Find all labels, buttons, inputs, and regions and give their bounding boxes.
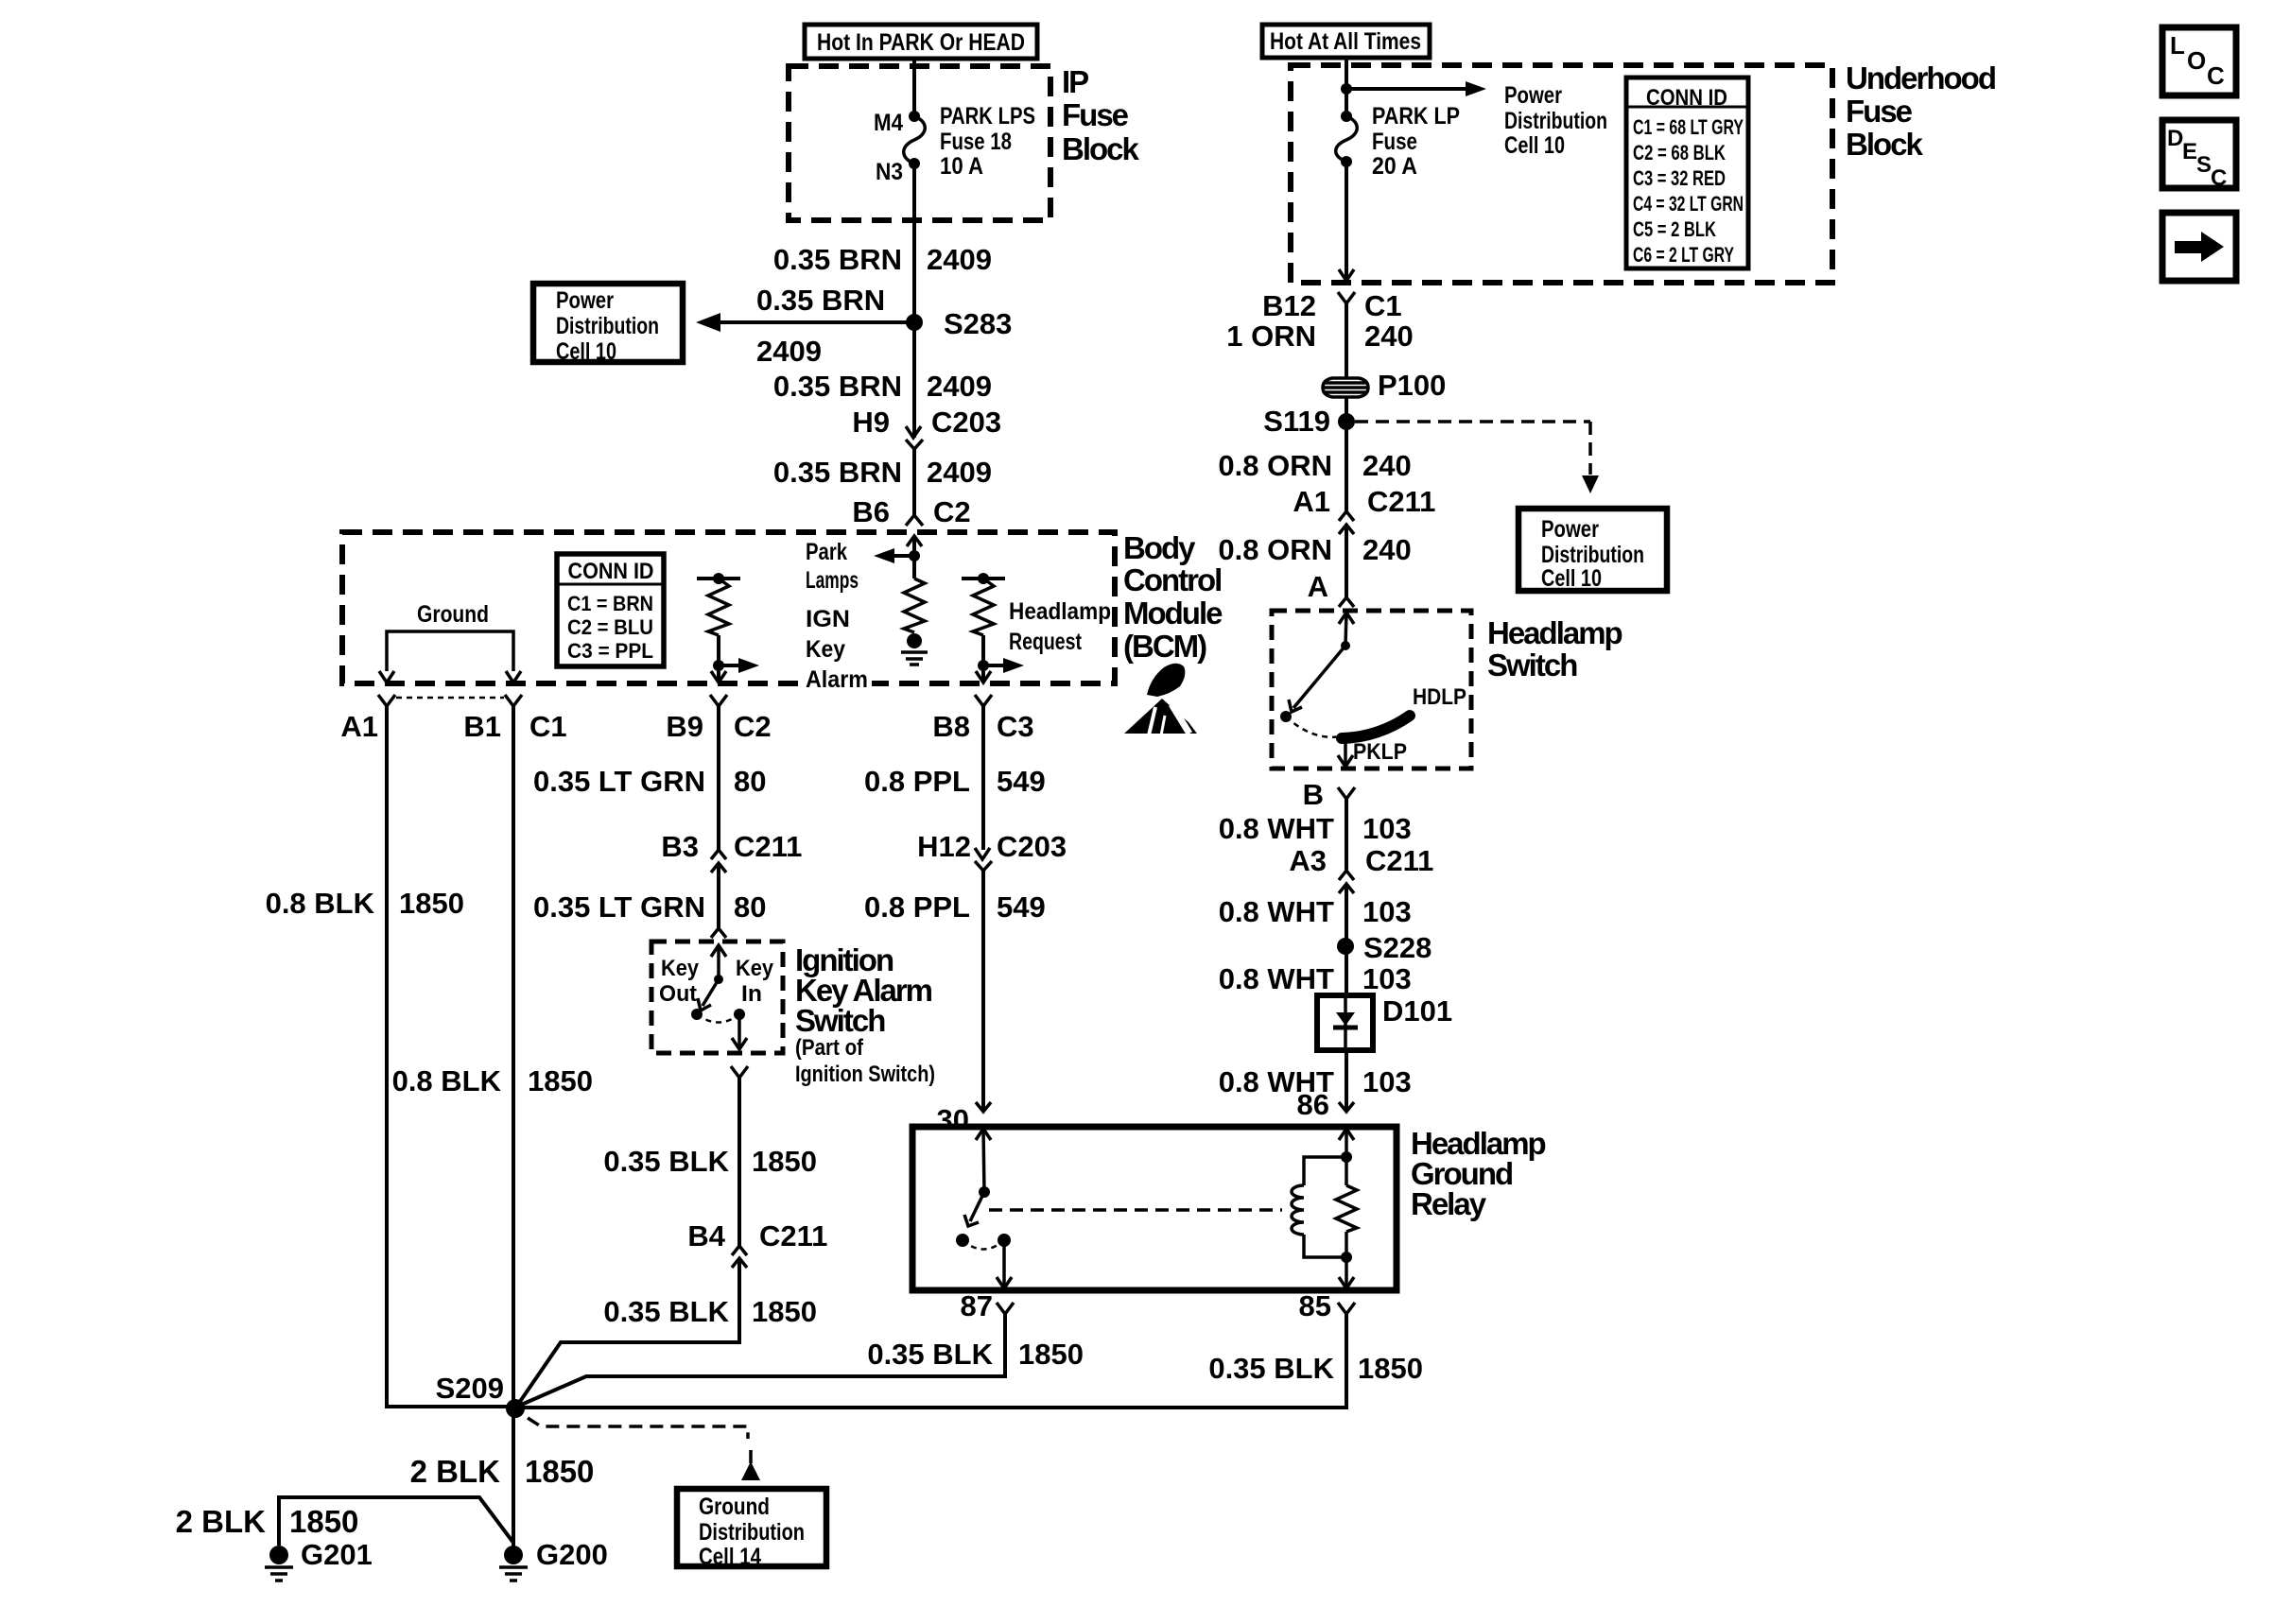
wire from fuse to underhood block edge (1345, 162, 1348, 281)
down arrow at BCM edge (pin B8) (976, 671, 991, 682)
wire from relay 85 down and over to S209 (523, 1314, 1346, 1408)
BCM pin B1 connector chevron (505, 695, 522, 706)
svg-text:S283: S283 (944, 307, 1012, 340)
chevron below ignition switch box (731, 1066, 748, 1078)
Headlamp Ground Relay box (912, 1127, 1397, 1290)
wire label 0.8 ORN 240 (1218, 449, 1411, 482)
wire from C211 down to ignition key alarm switch (717, 863, 720, 928)
wire label 0.35 BLK 1850 (87 lead) (867, 1338, 1084, 1371)
svg-text:Request: Request (1009, 629, 1083, 655)
connector C2 pin B6 at BCM edge (852, 495, 970, 546)
wire label 0.35 LT GRN 80 (533, 765, 767, 798)
wire from P100 to S119 (1345, 398, 1348, 511)
svg-text:Fuse: Fuse (1372, 129, 1417, 155)
svg-text:CONN ID: CONN ID (568, 559, 654, 584)
wire label 2 BLK 1850 (G201 lead) (176, 1504, 359, 1539)
svg-text:2409: 2409 (927, 370, 992, 403)
svg-text:1 ORN: 1 ORN (1226, 320, 1316, 353)
wire from C203 down to BCM pin B6 (912, 449, 916, 515)
feed label box "Hot At All Times" (1262, 25, 1430, 58)
ignition switch internals (691, 945, 747, 1049)
in-line connector C203 pin H12 (917, 830, 1067, 871)
svg-text:0.35 BLK: 0.35 BLK (603, 1295, 729, 1328)
svg-text:O: O (2187, 46, 2206, 75)
svg-text:Distribution: Distribution (699, 1519, 805, 1546)
BCM pin A1 connector chevron (378, 695, 395, 706)
svg-text:Key: Key (661, 956, 700, 981)
feed label box "Hot In PARK Or HEAD" (805, 25, 1037, 59)
svg-text:Cell 10: Cell 10 (556, 338, 616, 365)
IP Fuse Block dashed box (789, 66, 1050, 220)
svg-text:C211: C211 (759, 1219, 827, 1253)
svg-text:C2 = 68 BLK: C2 = 68 BLK (1633, 141, 1726, 164)
svg-text:G200: G200 (536, 1538, 608, 1571)
svg-text:B9: B9 (666, 710, 703, 743)
svg-text:549: 549 (997, 890, 1046, 924)
IGN key alarm arrow (points right) (719, 658, 759, 673)
Park Lamps label (806, 539, 859, 594)
svg-text:C203: C203 (931, 406, 1001, 439)
chevron above ignition switch box (711, 928, 726, 938)
fuse value label PARK LPS Fuse 18 10 A (940, 103, 1035, 180)
chevron below headlamp switch box (1338, 787, 1355, 799)
wire label 2 BLK 1850 (below S209) (410, 1454, 595, 1489)
Body Control Module (BCM) dashed box (342, 532, 1115, 683)
wire label 0.35 BLK 1850 (603, 1145, 817, 1178)
wire label 0.8 ORN 240 (lower) (1218, 533, 1411, 566)
in-line connector C211 pin A1 (1293, 485, 1435, 534)
svg-text:Cell 14: Cell 14 (699, 1544, 761, 1570)
svg-text:C211: C211 (734, 830, 802, 863)
Headlamp Switch dashed box (1272, 611, 1471, 769)
svg-text:C1: C1 (1364, 289, 1402, 322)
wire from S283 down to connector C203 (912, 322, 916, 438)
svg-text:Distribution: Distribution (1541, 542, 1644, 568)
svg-text:Ground: Ground (417, 601, 489, 628)
svg-text:1850: 1850 (289, 1504, 358, 1539)
in-line connector C211 pin A3 (1289, 844, 1433, 893)
svg-text:C: C (2207, 61, 2225, 90)
svg-text:Fuse: Fuse (1846, 94, 1913, 129)
relay coil and resistor (pins 86/85) (1292, 1129, 1357, 1288)
svg-text:G201: G201 (301, 1538, 373, 1571)
Power Distribution Cell 10 reference box (left) (533, 284, 683, 365)
wire from C211 to headlamp switch (1345, 525, 1348, 597)
svg-text:0.8 BLK: 0.8 BLK (266, 887, 375, 920)
svg-text:1850: 1850 (528, 1064, 593, 1097)
svg-text:Park: Park (806, 539, 847, 565)
wire B8 headlamp request lead down to connector C203 (981, 706, 985, 850)
chevron below relay at pin 87 (997, 1303, 1014, 1314)
svg-text:B8: B8 (932, 710, 970, 743)
wire B9 key alarm lead down to connector C211 (717, 706, 720, 850)
svg-text:C203: C203 (997, 830, 1067, 863)
svg-text:(Part of: (Part of (795, 1035, 864, 1061)
svg-text:85: 85 (1299, 1289, 1331, 1322)
wire label 0.8 WHT 103 (fourth) (1219, 1065, 1412, 1098)
svg-text:Power: Power (1541, 516, 1599, 543)
BCM park lamps driver: node and resistor to ground (909, 536, 920, 579)
svg-text:C2: C2 (933, 495, 971, 528)
svg-text:Lamps: Lamps (806, 567, 859, 594)
headlamp switch name label (1487, 615, 1622, 682)
splice S283 (906, 314, 923, 331)
svg-text:A3: A3 (1289, 844, 1327, 877)
svg-text:H12: H12 (917, 830, 971, 863)
svg-text:Hot In PARK Or HEAD: Hot In PARK Or HEAD (817, 29, 1025, 56)
ESD sensitivity symbol (1124, 664, 1197, 735)
svg-text:P100: P100 (1378, 369, 1446, 402)
svg-text:Module: Module (1123, 596, 1223, 631)
BCM pin B8 connector chevron (975, 695, 992, 706)
svg-text:C1 = BRN: C1 = BRN (567, 592, 653, 615)
svg-text:0.8 BLK: 0.8 BLK (392, 1064, 502, 1097)
svg-text:1850: 1850 (399, 887, 464, 920)
svg-text:C2: C2 (734, 710, 772, 743)
svg-text:0.8 PPL: 0.8 PPL (864, 890, 970, 924)
svg-text:PKLP: PKLP (1353, 739, 1407, 765)
splice S119 (1338, 413, 1355, 430)
ground G201 (265, 1538, 373, 1581)
svg-text:86: 86 (1297, 1088, 1329, 1121)
svg-text:2409: 2409 (927, 243, 992, 276)
svg-text:C3 = 32 RED: C3 = 32 RED (1633, 166, 1726, 190)
svg-text:CONN ID: CONN ID (1646, 85, 1727, 111)
svg-text:Cell 10: Cell 10 (1541, 565, 1602, 592)
svg-text:HDLP: HDLP (1413, 684, 1466, 710)
wire from D101 to relay pin 86 (1345, 1050, 1348, 1112)
ground G200 (499, 1538, 608, 1581)
wire label 0.35 BLK 1850 (lower) (603, 1295, 817, 1328)
svg-text:Fuse 18: Fuse 18 (940, 129, 1012, 155)
connector C1 pin B12 below underhood block (1262, 289, 1402, 322)
svg-text:1850: 1850 (752, 1145, 817, 1178)
svg-text:1850: 1850 (1358, 1352, 1423, 1385)
svg-text:Ground: Ground (699, 1494, 770, 1520)
svg-text:20 A: 20 A (1372, 153, 1417, 180)
svg-text:Key: Key (806, 636, 845, 663)
connector body dashed link A1-B1 (396, 697, 504, 700)
svg-text:Hot At All Times: Hot At All Times (1270, 28, 1421, 55)
svg-text:D101: D101 (1382, 994, 1452, 1028)
svg-text:0.35 BLK: 0.35 BLK (867, 1338, 993, 1371)
svg-text:C211: C211 (1367, 485, 1435, 518)
svg-text:C1 = 68 LT GRY: C1 = 68 LT GRY (1633, 115, 1744, 139)
wire label 0.35 BLK 1850 (85 lead) (1208, 1352, 1423, 1385)
svg-text:S209: S209 (436, 1372, 504, 1405)
wire label 1 ORN 240 (1226, 320, 1413, 353)
wire label 0.35 BRN 2409 (below C203) (773, 456, 992, 489)
relay internal dashed actuation line (989, 1208, 1282, 1212)
grommet P100 (1323, 369, 1446, 402)
svg-text:C1: C1 (529, 710, 567, 743)
svg-text:Switch: Switch (1487, 648, 1577, 682)
down arrow at BCM edge (pin B9) (711, 671, 726, 682)
LOC icon box (2162, 27, 2236, 95)
chevron above relay box at pin 86 (1339, 1102, 1354, 1112)
in-line connector C211 pin B4 (687, 1219, 827, 1268)
svg-text:S119: S119 (1263, 405, 1330, 438)
svg-text:0.8 WHT: 0.8 WHT (1219, 962, 1334, 995)
svg-text:2 BLK: 2 BLK (176, 1504, 267, 1539)
svg-text:30: 30 (937, 1103, 969, 1136)
switch wiper track HDLP-PKLP (thick arc) (1342, 716, 1410, 738)
wire from B4 down and over to S209 (517, 1258, 739, 1406)
svg-text:Headlamp: Headlamp (1009, 598, 1111, 625)
svg-text:0.35 LT GRN: 0.35 LT GRN (533, 890, 705, 924)
wire from C211 through S228 and D101 to relay 86 (1345, 884, 1348, 995)
wire label 0.8 PPL 549 (lower) (864, 890, 1046, 924)
svg-text:0.35 BRN: 0.35 BRN (756, 284, 885, 317)
svg-text:PARK LPS: PARK LPS (940, 103, 1035, 130)
svg-text:Power: Power (1504, 82, 1562, 109)
in-line connector C203 pin H9 (852, 406, 1001, 449)
relay name label (1411, 1126, 1546, 1221)
svg-text:In: In (741, 981, 762, 1007)
wire from B12 to P100 (1345, 303, 1348, 377)
svg-text:Out: Out (659, 981, 697, 1007)
svg-text:240: 240 (1362, 533, 1412, 566)
DESC icon box (2162, 120, 2236, 191)
svg-text:IGN: IGN (806, 606, 850, 632)
wire from G201 up and over to G200 lead (279, 1497, 513, 1546)
arrow branch to power distribution (points right) (1346, 81, 1486, 96)
svg-text:C5 = 2 BLK: C5 = 2 BLK (1633, 217, 1716, 241)
in-line connector C211 pin B3 (661, 830, 802, 872)
svg-text:0.8 WHT: 0.8 WHT (1219, 812, 1334, 845)
wire from relay 87 down and over to S209 (519, 1314, 1005, 1406)
svg-text:2409: 2409 (756, 335, 822, 368)
branch node in underhood block (1341, 83, 1352, 95)
wire label 0.35 BRN 2409 (below S283) (773, 370, 992, 403)
svg-text:103: 103 (1362, 962, 1412, 995)
relay switch (pins 30/87) (956, 1129, 1012, 1288)
svg-text:0.8 ORN: 0.8 ORN (1218, 533, 1332, 566)
wire A1 ground lead down to S209 (387, 706, 509, 1407)
svg-text:0.35 BLK: 0.35 BLK (1208, 1352, 1334, 1385)
svg-text:1850: 1850 (752, 1295, 817, 1328)
CONN ID table (underhood) (1626, 78, 1748, 268)
svg-text:240: 240 (1362, 449, 1412, 482)
svg-text:0.8 WHT: 0.8 WHT (1219, 895, 1334, 928)
svg-text:Power: Power (556, 287, 614, 314)
BCM IGN key alarm resistor (697, 573, 740, 682)
BCM pin B9 connector chevron (710, 695, 727, 706)
diode D101 (1317, 994, 1452, 1050)
Underhood Fuse Block name label (1846, 60, 1995, 162)
svg-text:Control: Control (1123, 562, 1221, 597)
Underhood Fuse Block dashed box (1291, 65, 1832, 283)
svg-text:1850: 1850 (1018, 1338, 1084, 1371)
fuse value label PARK LP Fuse 20 A (1372, 103, 1460, 180)
svg-text:B3: B3 (661, 830, 699, 863)
svg-text:0.8 ORN: 0.8 ORN (1218, 449, 1332, 482)
svg-text:B4: B4 (687, 1219, 725, 1253)
Power Distribution Cell 10 reference box (right) (1518, 509, 1667, 592)
svg-text:Headlamp: Headlamp (1487, 615, 1622, 650)
BCM internal ground bracket wires (379, 631, 521, 682)
IGN Key Alarm label (802, 606, 872, 693)
svg-text:Switch: Switch (795, 1003, 885, 1038)
wire label 0.8 PPL 549 (864, 765, 1046, 798)
svg-text:Fuse: Fuse (1062, 97, 1129, 132)
fuse F18 PARK LPS symbol (904, 111, 926, 169)
wire label 0.8 WHT 103 (1219, 812, 1412, 845)
svg-text:S228: S228 (1363, 931, 1431, 964)
BCM headlamp request resistor (962, 573, 1005, 682)
svg-text:Relay: Relay (1411, 1186, 1487, 1221)
park lamps resistor (904, 579, 925, 632)
svg-text:10 A: 10 A (940, 153, 983, 180)
svg-text:B1: B1 (463, 710, 501, 743)
svg-text:C3 = PPL: C3 = PPL (567, 639, 653, 663)
svg-text:87: 87 (961, 1289, 993, 1322)
svg-text:B12: B12 (1262, 289, 1316, 322)
svg-text:0.35 BRN: 0.35 BRN (773, 243, 902, 276)
chevron above relay box at pin 30 (976, 1102, 991, 1112)
forward arrow icon box (2162, 213, 2236, 281)
Key Out label (659, 956, 700, 1007)
svg-text:240: 240 (1364, 320, 1414, 353)
svg-text:A1: A1 (340, 710, 378, 743)
svg-text:2 BLK: 2 BLK (410, 1454, 501, 1489)
chevron above headlamp switch box (1339, 597, 1354, 607)
svg-text:0.35 BLK: 0.35 BLK (603, 1145, 729, 1178)
svg-text:C3: C3 (997, 710, 1034, 743)
Ignition Key Alarm Switch dashed box (651, 942, 783, 1053)
svg-text:Key: Key (736, 956, 774, 981)
svg-text:Block: Block (1846, 127, 1924, 162)
svg-text:1850: 1850 (525, 1454, 594, 1489)
svg-text:C4 = 32 LT GRN: C4 = 32 LT GRN (1633, 192, 1744, 216)
svg-text:0.8 PPL: 0.8 PPL (864, 765, 970, 798)
BCM internal ground symbol (901, 633, 928, 665)
down arrow at underhood block edge (1339, 269, 1354, 281)
Ground Distribution Cell 14 reference box (677, 1489, 826, 1570)
headlamp switch internals (1280, 613, 1354, 737)
svg-text:IP: IP (1062, 64, 1088, 99)
svg-text:D: D (2167, 126, 2183, 151)
svg-text:Alarm: Alarm (806, 666, 868, 693)
wire label 0.35 BRN 2409 (773, 243, 992, 276)
Power Distribution Cell 10 text (underhood) (1504, 82, 1607, 159)
svg-text:Distribution: Distribution (1504, 108, 1607, 134)
svg-text:(BCM): (BCM) (1123, 629, 1206, 664)
park lamps arrow (points left) (874, 548, 914, 563)
svg-text:M4: M4 (874, 110, 903, 136)
svg-text:Underhood: Underhood (1846, 60, 1995, 95)
ignition switch name label (795, 942, 935, 1087)
wire branch from S283 to Power Distribution (arrow left) (696, 313, 914, 332)
wire from Hot At All Times box to fuse (1345, 58, 1348, 115)
svg-text:E: E (2182, 139, 2197, 164)
svg-text:103: 103 (1362, 1065, 1412, 1098)
wire from C203 down to relay pin 30 (981, 871, 985, 1112)
svg-text:103: 103 (1362, 895, 1412, 928)
svg-text:A1: A1 (1293, 485, 1330, 518)
svg-text:B6: B6 (852, 495, 890, 528)
svg-text:Body: Body (1123, 530, 1196, 565)
headlamp request arrow (points right) (983, 658, 1024, 673)
wire label 0.35 LT GRN 80 (lower) (533, 890, 767, 924)
IP Fuse Block name label (1062, 64, 1140, 166)
wire key-in lead down to connector C211 pin B4 (737, 1078, 741, 1246)
Headlamp Request label (1009, 598, 1111, 655)
svg-text:0.35 LT GRN: 0.35 LT GRN (533, 765, 705, 798)
svg-text:Distribution: Distribution (556, 313, 659, 339)
svg-text:H9: H9 (852, 406, 890, 439)
dashed reference from S119 to power distribution (1355, 422, 1599, 493)
svg-text:C2 = BLU: C2 = BLU (567, 615, 653, 639)
svg-text:C6 = 2 LT GRY: C6 = 2 LT GRY (1633, 243, 1734, 267)
svg-text:N3: N3 (876, 159, 903, 185)
svg-text:PARK LP: PARK LP (1372, 103, 1460, 130)
wire label 0.8 BLK 1850 (B1 lead) (392, 1064, 593, 1097)
switch output lead to pin B (1338, 738, 1353, 767)
wire B1 ground lead down through S209 to G200 (512, 706, 515, 1546)
svg-text:S: S (2196, 152, 2212, 178)
BCM name label (1123, 530, 1223, 664)
Key In label (736, 956, 774, 1007)
svg-text:C: C (2211, 165, 2227, 191)
wire from fuse N3 down to splice S283 (912, 164, 916, 322)
wire from switch B down to connector C211 (1345, 799, 1348, 871)
svg-text:L: L (2170, 31, 2185, 60)
svg-text:80: 80 (734, 765, 766, 798)
svg-text:B: B (1303, 778, 1324, 811)
fuse PARK LP 20A symbol (1336, 111, 1358, 167)
svg-text:2409: 2409 (927, 456, 992, 489)
splice S209 (506, 1399, 525, 1418)
svg-text:A: A (1308, 570, 1328, 603)
wire label 0.8 BLK 1850 (A1 lead) (266, 887, 464, 920)
splice S228 (1337, 938, 1354, 955)
chevron below relay at pin 85 (1338, 1303, 1355, 1314)
svg-text:0.35 BRN: 0.35 BRN (773, 370, 902, 403)
svg-text:549: 549 (997, 765, 1046, 798)
wire label 0.8 WHT 103 (second) (1219, 895, 1412, 928)
svg-text:103: 103 (1362, 812, 1412, 845)
svg-text:80: 80 (734, 890, 766, 924)
svg-text:Block: Block (1062, 131, 1140, 166)
svg-text:C211: C211 (1365, 844, 1433, 877)
svg-text:Ignition Switch): Ignition Switch) (795, 1062, 935, 1087)
wire from Hot In PARK box down to fuse pin M4 (912, 59, 916, 116)
wire label 0.8 WHT 103 (third) (1219, 962, 1412, 995)
dashed reference line from S209 to ground distribution (528, 1418, 760, 1480)
CONN ID table (BCM) (557, 554, 664, 666)
svg-text:Cell 10: Cell 10 (1504, 132, 1565, 159)
svg-text:0.35 BRN: 0.35 BRN (773, 456, 902, 489)
